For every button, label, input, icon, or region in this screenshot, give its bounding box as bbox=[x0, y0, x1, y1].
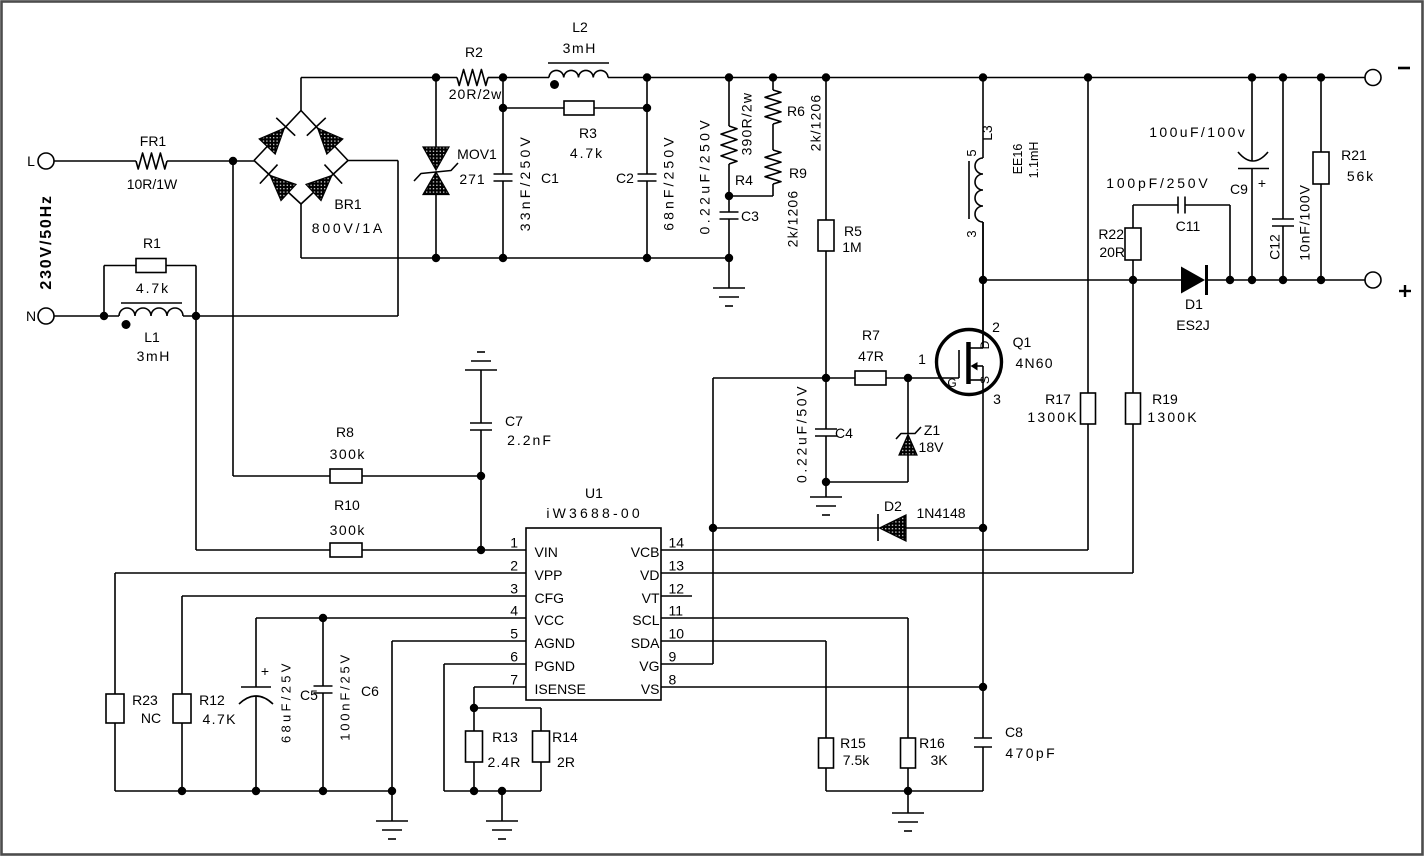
wire SDA net bbox=[661, 640, 826, 642]
capacitor C4 bbox=[825, 378, 827, 429]
svg-text:20R: 20R bbox=[1099, 244, 1125, 260]
svg-text:BR1: BR1 bbox=[334, 196, 361, 212]
svg-text:5: 5 bbox=[964, 149, 979, 156]
svg-text:R14: R14 bbox=[552, 729, 578, 745]
svg-text:VCC: VCC bbox=[535, 612, 565, 628]
svg-text:R10: R10 bbox=[334, 497, 360, 513]
svg-text:S: S bbox=[978, 376, 992, 384]
node gate junctions bbox=[822, 374, 830, 382]
svg-text:EE16: EE16 bbox=[1011, 144, 1025, 175]
node C4 bottom bbox=[822, 478, 830, 486]
ground below C3 bbox=[728, 258, 730, 288]
svg-text:4.7k: 4.7k bbox=[570, 145, 604, 161]
svg-text:R21: R21 bbox=[1341, 147, 1367, 163]
resistor R13 bbox=[473, 708, 475, 731]
ground below C4 bbox=[825, 482, 827, 497]
op-amp U1 iW3688-00 body bbox=[526, 528, 661, 700]
svg-text:R7: R7 bbox=[862, 327, 880, 343]
svg-text:C5: C5 bbox=[300, 687, 318, 703]
capacitor C9 bbox=[1248, 73, 1256, 81]
svg-text:68nF/250V: 68nF/250V bbox=[661, 134, 677, 230]
node ISENSE junction bbox=[470, 704, 478, 712]
svg-text:NC: NC bbox=[141, 710, 161, 726]
wire gate net vertical bbox=[712, 378, 714, 664]
svg-text:2: 2 bbox=[992, 319, 1000, 335]
svg-text:R8: R8 bbox=[336, 424, 354, 440]
pin 12 VT stub bbox=[661, 595, 692, 597]
svg-text:C9: C9 bbox=[1230, 181, 1248, 197]
capacitor C6 bbox=[319, 614, 327, 622]
resistor R15 bbox=[819, 738, 834, 768]
wire VPP net bbox=[115, 572, 526, 574]
svg-text:5: 5 bbox=[510, 626, 518, 642]
inductor L3 winding bbox=[979, 73, 987, 81]
wire sense bottom rail bbox=[826, 790, 983, 792]
svg-text:1.1mH: 1.1mH bbox=[1027, 142, 1041, 179]
svg-text:L3: L3 bbox=[979, 125, 995, 141]
svg-text:1300K: 1300K bbox=[1147, 409, 1198, 425]
svg-text:100pF/250V: 100pF/250V bbox=[1106, 175, 1210, 191]
wire bridge bottom to neg rail bbox=[300, 204, 302, 258]
svg-text:Z1: Z1 bbox=[924, 422, 941, 438]
svg-text:R9: R9 bbox=[789, 165, 807, 181]
svg-text:0.22uF/250V: 0.22uF/250V bbox=[697, 117, 713, 235]
svg-text:+: + bbox=[1258, 175, 1266, 191]
svg-text:0.22uF/50V: 0.22uF/50V bbox=[794, 384, 810, 483]
svg-text:4.7k: 4.7k bbox=[136, 280, 170, 296]
svg-text:4.7K: 4.7K bbox=[202, 711, 236, 727]
svg-text:VIN: VIN bbox=[535, 544, 558, 560]
wire gate line bbox=[713, 377, 855, 379]
node R13 bottom junctions bbox=[470, 787, 478, 795]
node L junction bbox=[229, 157, 237, 165]
svg-text:230V/50Hz: 230V/50Hz bbox=[38, 194, 55, 289]
svg-text:VT: VT bbox=[642, 590, 660, 606]
svg-text:R12: R12 bbox=[199, 692, 225, 708]
node VS junction bbox=[979, 683, 987, 691]
svg-text:PGND: PGND bbox=[535, 658, 575, 674]
svg-text:271: 271 bbox=[459, 171, 485, 187]
diode D2 bbox=[709, 524, 717, 532]
wire AGND net bbox=[392, 640, 526, 642]
svg-text:+: + bbox=[261, 663, 269, 679]
svg-text:VPP: VPP bbox=[535, 567, 563, 583]
node R8-C7 junction bbox=[477, 472, 485, 480]
wire ISENSE net bbox=[474, 686, 526, 688]
terminal plus bbox=[1365, 272, 1381, 288]
svg-text:D2: D2 bbox=[884, 498, 902, 514]
inductor L1 bbox=[119, 308, 183, 316]
svg-text:7.5k: 7.5k bbox=[843, 752, 870, 768]
svg-text:C6: C6 bbox=[361, 683, 379, 699]
svg-text:13: 13 bbox=[669, 558, 685, 574]
svg-text:C7: C7 bbox=[505, 413, 523, 429]
svg-text:8: 8 bbox=[669, 672, 677, 688]
node R2 junctions bbox=[432, 73, 440, 81]
fusible resistor FR1 bbox=[136, 153, 167, 169]
svg-text:R23: R23 bbox=[132, 692, 158, 708]
node C3 bottom bbox=[725, 254, 733, 262]
svg-text:D1: D1 bbox=[1185, 296, 1203, 312]
resistor R21 bbox=[1317, 73, 1325, 81]
wire Q1 drain up bbox=[982, 222, 984, 348]
capacitor C8 bbox=[982, 687, 984, 738]
svg-text:300k: 300k bbox=[330, 446, 366, 462]
resistor R7 bbox=[855, 371, 886, 385]
svg-text:CFG: CFG bbox=[535, 590, 565, 606]
wire VS net bbox=[661, 686, 983, 688]
svg-text:R4: R4 bbox=[735, 172, 753, 188]
wire bottom left rail bbox=[115, 790, 392, 792]
diode D1 bbox=[1181, 267, 1205, 294]
svg-text:68uF/25V: 68uF/25V bbox=[279, 660, 294, 743]
svg-text:10: 10 bbox=[669, 626, 685, 642]
svg-text:U1: U1 bbox=[585, 485, 603, 501]
svg-text:N: N bbox=[26, 308, 36, 324]
capacitor C3 bbox=[725, 192, 733, 200]
inductor L2 bbox=[549, 70, 608, 77]
ground below AGND bbox=[391, 791, 393, 821]
svg-text:R15: R15 bbox=[840, 735, 866, 751]
svg-text:R1: R1 bbox=[143, 235, 161, 251]
svg-text:SDA: SDA bbox=[631, 635, 660, 651]
svg-text:L: L bbox=[27, 153, 35, 169]
wire N line bbox=[54, 315, 119, 317]
svg-text:VG: VG bbox=[639, 658, 659, 674]
svg-text:6: 6 bbox=[510, 649, 518, 665]
wire output line bbox=[983, 279, 1182, 281]
svg-text:56k: 56k bbox=[1347, 168, 1375, 184]
svg-text:1: 1 bbox=[918, 351, 926, 367]
svg-text:470pF: 470pF bbox=[1005, 745, 1057, 761]
resistor R4 bbox=[725, 73, 733, 81]
svg-text:20R/2w: 20R/2w bbox=[449, 86, 502, 102]
svg-text:D: D bbox=[978, 340, 992, 349]
transistor Q1 bbox=[937, 330, 1002, 395]
node R16 bottom bbox=[904, 787, 912, 795]
svg-text:3mH: 3mH bbox=[137, 348, 171, 364]
svg-text:2.4R: 2.4R bbox=[488, 754, 522, 770]
bridge rectifier BR1 bbox=[254, 111, 301, 161]
svg-text:11: 11 bbox=[669, 603, 684, 619]
svg-text:C8: C8 bbox=[1005, 724, 1023, 740]
svg-text:1M: 1M bbox=[842, 239, 861, 255]
wire L to R8 bbox=[232, 161, 234, 476]
svg-text:Q1: Q1 bbox=[1013, 334, 1032, 350]
varistor MOV1 bbox=[435, 78, 437, 148]
svg-text:3: 3 bbox=[964, 230, 979, 237]
svg-text:4: 4 bbox=[510, 603, 518, 619]
svg-text:33nF/250V: 33nF/250V bbox=[517, 134, 533, 231]
svg-text:18V: 18V bbox=[919, 439, 945, 455]
wire L line bbox=[54, 160, 136, 162]
resistor R8 bbox=[233, 475, 330, 477]
svg-text:VD: VD bbox=[640, 567, 659, 583]
resistor R12 bbox=[173, 694, 191, 723]
svg-text:390R/2w: 390R/2w bbox=[739, 92, 755, 156]
svg-text:1N4148: 1N4148 bbox=[916, 505, 965, 521]
svg-text:800V/1A: 800V/1A bbox=[312, 220, 385, 236]
svg-text:2k/1206: 2k/1206 bbox=[785, 190, 801, 248]
svg-text:SCL: SCL bbox=[632, 612, 659, 628]
resistor R23 bbox=[106, 694, 124, 723]
wire CFG net bbox=[182, 595, 526, 597]
svg-text:G: G bbox=[947, 376, 956, 390]
svg-text:ISENSE: ISENSE bbox=[535, 681, 586, 697]
svg-text:R19: R19 bbox=[1152, 391, 1178, 407]
wire top rail bbox=[301, 77, 436, 79]
resistor R2 bbox=[436, 77, 457, 79]
svg-text:iW3688-00: iW3688-00 bbox=[546, 505, 643, 521]
svg-text:100uF/100v: 100uF/100v bbox=[1149, 124, 1247, 140]
svg-text:9: 9 bbox=[669, 649, 677, 665]
svg-text:MOV1: MOV1 bbox=[457, 146, 497, 162]
svg-text:R6: R6 bbox=[787, 103, 805, 119]
terminal L bbox=[38, 153, 54, 169]
svg-text:4N60: 4N60 bbox=[1015, 355, 1053, 371]
svg-text:ES2J: ES2J bbox=[1176, 317, 1209, 333]
svg-text:C4: C4 bbox=[835, 425, 853, 441]
node VIN junction bbox=[477, 546, 485, 554]
capacitor C11 bbox=[1133, 204, 1178, 206]
capacitor C1 bbox=[502, 78, 504, 175]
svg-text:R16: R16 bbox=[919, 735, 945, 751]
resistor R6 bbox=[769, 73, 777, 81]
svg-text:1: 1 bbox=[510, 535, 518, 551]
svg-text:R17: R17 bbox=[1045, 391, 1071, 407]
wire output to terminal bbox=[1230, 279, 1365, 281]
svg-text:VS: VS bbox=[641, 681, 660, 697]
svg-text:R22: R22 bbox=[1098, 226, 1124, 242]
zener Z1 bbox=[907, 378, 909, 433]
node switch-output junction bbox=[979, 276, 987, 284]
wire Q1 source down bbox=[982, 380, 984, 687]
svg-text:C11: C11 bbox=[1176, 218, 1201, 234]
svg-text:10nF/100V: 10nF/100V bbox=[1297, 184, 1313, 261]
svg-text:R2: R2 bbox=[465, 44, 483, 60]
svg-text:C12: C12 bbox=[1267, 234, 1283, 260]
svg-text:L2: L2 bbox=[572, 19, 588, 35]
svg-text:300k: 300k bbox=[330, 522, 366, 538]
ground below R13 R14 bbox=[501, 791, 503, 821]
resistor R1 bbox=[103, 266, 105, 317]
node N-L1 junctions bbox=[100, 312, 108, 320]
resistor R19 bbox=[1132, 280, 1134, 393]
svg-text:2: 2 bbox=[510, 558, 518, 574]
svg-text:FR1: FR1 bbox=[140, 133, 167, 149]
svg-text:47R: 47R bbox=[858, 348, 884, 364]
svg-text:C3: C3 bbox=[741, 208, 759, 224]
svg-text:2k/1206: 2k/1206 bbox=[808, 94, 824, 152]
ground above C7 bbox=[480, 370, 482, 423]
wire SCL net bbox=[661, 617, 908, 619]
capacitor C12 bbox=[1279, 73, 1287, 81]
wire bridge right to N bbox=[348, 160, 398, 162]
svg-text:C1: C1 bbox=[541, 170, 559, 186]
capacitor C5 bbox=[255, 618, 257, 687]
resistor R3 bbox=[503, 107, 647, 109]
svg-text:C2: C2 bbox=[616, 170, 634, 186]
resistor R10 bbox=[196, 549, 330, 551]
resistor R5 bbox=[822, 73, 830, 81]
wire VG net bbox=[661, 663, 713, 665]
wire neg rail bbox=[301, 257, 729, 259]
svg-text:R13: R13 bbox=[492, 729, 518, 745]
wire PGND net bbox=[444, 663, 526, 665]
ground below R16 bbox=[907, 791, 909, 813]
svg-text:R3: R3 bbox=[579, 125, 597, 141]
svg-text:2.2nF: 2.2nF bbox=[507, 432, 553, 448]
svg-text:L1: L1 bbox=[144, 329, 160, 345]
wire VCC net bbox=[256, 617, 526, 619]
svg-text:10R/1W: 10R/1W bbox=[127, 176, 178, 192]
svg-text:VCB: VCB bbox=[631, 544, 660, 560]
resistor R9 bbox=[765, 150, 781, 184]
resistor R17 bbox=[1084, 73, 1092, 81]
svg-text:12: 12 bbox=[669, 581, 685, 597]
resistor R14 bbox=[474, 707, 541, 709]
resistor R16 bbox=[901, 738, 916, 768]
svg-text:AGND: AGND bbox=[535, 635, 575, 651]
terminal minus bbox=[1365, 70, 1381, 86]
resistor R22 bbox=[1129, 276, 1137, 284]
svg-text:2R: 2R bbox=[557, 754, 575, 770]
svg-text:3mH: 3mH bbox=[563, 40, 597, 56]
terminal N bbox=[38, 308, 54, 324]
wire bridge top to rail bbox=[300, 78, 302, 111]
capacitor C7 bbox=[470, 422, 492, 424]
svg-text:R5: R5 bbox=[844, 223, 862, 239]
svg-text:14: 14 bbox=[669, 535, 685, 551]
svg-text:3: 3 bbox=[993, 391, 1001, 407]
wire N to R10 bbox=[195, 316, 197, 550]
svg-text:1300K: 1300K bbox=[1027, 409, 1078, 425]
capacitor C2 bbox=[643, 73, 651, 81]
svg-text:3: 3 bbox=[510, 581, 518, 597]
svg-text:100nF/25V: 100nF/25V bbox=[338, 652, 353, 741]
svg-text:7: 7 bbox=[510, 672, 518, 688]
svg-text:3K: 3K bbox=[930, 752, 948, 768]
